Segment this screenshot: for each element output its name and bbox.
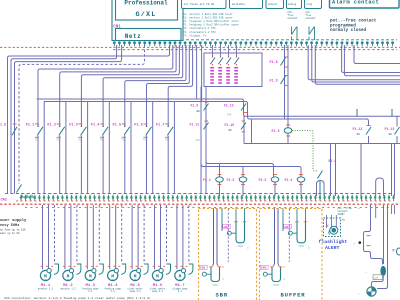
lamp F2.2 (227, 167, 247, 197)
fuse F1.13a (224, 102, 247, 117)
buzzer H1 (381, 266, 386, 275)
svg-text:Professional: Professional (124, 0, 168, 6)
fuse F1.3 (69, 99, 88, 194)
BUFFER internal wires (275, 209, 306, 264)
pot contact note (306, 11, 317, 20)
fuse F1.11 (190, 121, 209, 142)
edge component M-right (393, 248, 400, 255)
motor M1.5 (130, 205, 148, 283)
svg-text:BUFFER: BUFFER (281, 292, 306, 299)
wire N-L3 (15, 45, 122, 194)
svg-text:A2: aerator 2 Bel2 DR2:I: A2: aerator 2 Bel2 DR2:ISB upper (183, 16, 233, 20)
wire Z1 (342, 45, 400, 73)
motor M1.2 (63, 205, 81, 283)
wire Z2 (344, 45, 400, 76)
svg-text:6A: 6A (389, 133, 393, 136)
svg-text:ency 50Hz: ency 50Hz (0, 224, 19, 228)
svg-text:~: ~ (156, 279, 158, 283)
svg-text:SBmin: SBmin (273, 283, 279, 286)
svg-text:~: ~ (67, 279, 69, 283)
wire V-335 (335, 144, 337, 197)
svg-text:off: off (374, 277, 379, 280)
svg-text:P7: sludgep. FL: P7: sludgep. FL (183, 33, 207, 37)
svg-text:A1: aerator 1 Bel1 DR1:I: A1: aerator 1 Bel1 DR1:ISB inner (183, 12, 233, 16)
svg-text:F1.1: F1.1 (26, 123, 35, 127)
pot contact note (288, 11, 299, 20)
lamp F2.4 (285, 175, 305, 196)
float switch BUFFER-lower (260, 263, 286, 286)
svg-text:F2.3: F2.3 (259, 178, 267, 182)
svg-text:T6A: T6A (35, 138, 40, 141)
fuse F1.2 (47, 99, 66, 194)
legend box: analog (287, 0, 302, 9)
svg-text:ower supply: ower supply (0, 218, 27, 223)
terminal box K1 (204, 53, 262, 87)
wire N-L2 (11, 45, 117, 194)
float switch BUFFER-upper (284, 222, 310, 250)
svg-text:P1: feedpump 1 Mux1 DR3:b: P1: feedpump 1 Mux1 DR3:buffer inner (183, 19, 239, 23)
svg-text:6A: 6A (197, 110, 201, 113)
svg-text:SBR: SBR (216, 292, 228, 299)
label box H1 (373, 275, 383, 280)
svg-text:contact: contact (306, 17, 317, 20)
X2 left hooks (22, 195, 35, 198)
svg-text:~: ~ (89, 279, 91, 283)
wire H1-P1 (372, 276, 384, 287)
bus B2 (44, 102, 369, 127)
svg-text:CN2: CN2 (1, 199, 7, 203)
arrow to contact (353, 241, 362, 246)
wire FC-b (287, 45, 289, 144)
legend box: fuses note (182, 0, 227, 9)
svg-text:F1.8: F1.8 (270, 61, 278, 65)
svg-text:F1.5: F1.5 (272, 130, 280, 134)
svg-text:SBmax: SBmax (298, 245, 305, 248)
net L1 rail (red dashed) (0, 46, 400, 48)
connector X2 pin row (20, 195, 395, 201)
svg-text:1.1: 1.1 (178, 290, 183, 293)
svg-text:F2.2: F2.2 (227, 178, 235, 182)
flashlight label (319, 239, 348, 251)
wire N-L1 (8, 45, 170, 194)
svg-text:F1.7: F1.7 (156, 123, 165, 127)
svg-text:F1.2: F1.2 (47, 123, 56, 127)
svg-text:m3: m3 (283, 278, 285, 280)
wire Z6 (315, 45, 400, 84)
motor M1.7 (175, 205, 193, 283)
controller U1 label box (116, 0, 178, 20)
wire Z4 (308, 45, 400, 80)
svg-text:contact: contact (288, 17, 299, 20)
svg-text:1.2: 1.2 (111, 290, 116, 293)
svg-text:~: ~ (134, 279, 136, 283)
motor M1.6 name (150, 287, 166, 293)
wire N-D1 (196, 45, 198, 99)
wire Z5 (312, 45, 400, 82)
svg-text:m3: m3 (222, 278, 224, 280)
svg-text:~: ~ (44, 279, 46, 283)
wire V-330 (330, 144, 332, 197)
motor M1.4 name (104, 287, 121, 293)
note: pot free contact (330, 19, 377, 34)
lamp F2.1 (203, 164, 223, 197)
lamp F2.3 (259, 175, 279, 196)
lamp F1.5 (272, 125, 292, 136)
teal riser a (356, 109, 358, 116)
wire W3 (377, 205, 388, 289)
legend box: prog (305, 0, 322, 9)
svg-text:#: # (327, 225, 329, 229)
svg-text:aerator 1.2: aerator 1.2 (60, 287, 76, 290)
motor M1.3 (85, 205, 103, 283)
switch E1.5 (318, 159, 337, 196)
rail R2 (201, 162, 301, 177)
motor M1.1 (40, 205, 58, 283)
svg-text:aerator 1.1: aerator 1.1 (38, 287, 54, 290)
SBR internal wires (214, 209, 245, 264)
fuse F1.13r (385, 116, 400, 143)
motor M1.5 name (128, 287, 144, 293)
alarm contact box (330, 0, 400, 8)
legend box: multibus (230, 0, 263, 9)
switch S-pot (292, 27, 298, 41)
fuse F1.4 (91, 99, 110, 194)
wire N-L4 (dashed) (19, 45, 145, 184)
wire N-F6 (147, 45, 190, 100)
motor M1.7 name (172, 287, 188, 293)
wire stub R4 (391, 205, 393, 214)
svg-text:T6A: T6A (56, 138, 61, 141)
svg-text:F1.6: F1.6 (134, 123, 143, 127)
float switch SBR-upper (223, 222, 249, 250)
wire stub R5 (394, 205, 396, 214)
svg-text:F1.13: F1.13 (224, 104, 234, 108)
wire bus-drop (243, 116, 245, 143)
wire-name labels row (teal) (25, 207, 390, 209)
wire N-F4 (103, 45, 183, 100)
svg-text:T6A: T6A (121, 138, 126, 141)
wire Z3 (354, 45, 400, 64)
terminal column K1.4 (234, 45, 239, 84)
svg-text:ALERT: ALERT (338, 213, 346, 216)
svg-text:F1.5: F1.5 (113, 123, 122, 127)
svg-text:*: * (358, 207, 360, 211)
svg-text:P2: feedpump 2 Mux2 DR4:b: P2: feedpump 2 Mux2 DR4:buffer upper (183, 23, 239, 27)
wire K1-out-a (200, 87, 202, 194)
bus B1 (37, 99, 400, 116)
switch S-A4 on dashed wire (17, 185, 22, 193)
fuse F1.8r (270, 57, 289, 67)
svg-text:T6A: T6A (100, 138, 105, 141)
svg-text:6A: 6A (229, 129, 233, 132)
fuse F1.5 (113, 99, 132, 194)
wire stub R3 (375, 205, 377, 218)
wire N-F5 (125, 45, 186, 100)
svg-text:multibus: multibus (232, 2, 245, 6)
svg-text:flashlight: flashlight (319, 239, 348, 245)
svg-text:F2.1: F2.1 (203, 178, 211, 182)
svg-text:T6A: T6A (78, 138, 83, 141)
teal riser b (391, 109, 393, 116)
wire K1-out-b (205, 87, 207, 194)
note mains supply (0, 218, 27, 235)
svg-text:F1.9: F1.9 (270, 80, 278, 84)
wire box-left (251, 119, 253, 144)
svg-text:P4: clearwaterp.2 TM2: P4: clearwaterp.2 TM2 (183, 30, 216, 34)
connector CN-top outline (dashed) (186, 39, 397, 41)
terminal column K1.1 (210, 45, 215, 84)
svg-text:T6A: T6A (227, 113, 232, 116)
pump P1 (367, 287, 376, 296)
svg-text:G/XL: G/XL (135, 11, 156, 19)
fuse F1.9r (270, 76, 289, 86)
fuse F1.7 (156, 99, 175, 194)
fuse F1.8 (left edge, cut) (0, 123, 17, 135)
svg-text:F1.13: F1.13 (385, 127, 395, 131)
svg-text:T6A: T6A (143, 138, 148, 141)
fuse F1.9 (191, 102, 209, 113)
svg-text:2A: 2A (357, 133, 361, 136)
fuse F1.12 (353, 126, 372, 144)
svg-text:1.8: 1.8 (0, 123, 6, 127)
note pot contact alert (338, 207, 361, 216)
svg-text:output: output (268, 3, 278, 6)
svg-text:~: ~ (112, 279, 114, 283)
wire N-D2 (201, 45, 203, 102)
svg-text:imer up to 6A: imer up to 6A (0, 232, 20, 235)
wire N-F2 (60, 45, 176, 100)
rail R1 (206, 161, 274, 177)
svg-text:SBmin: SBmin (212, 283, 218, 286)
svg-text:m3: m3 (308, 247, 310, 249)
svg-text:pump 1.2: pump 1.2 (152, 290, 164, 293)
wire V-394 (394, 144, 396, 197)
tank box BUFFER (260, 209, 323, 300)
flashlight box (324, 218, 341, 237)
svg-text:XXX connection: aerator 1.1+1.: XXX connection: aerator 1.1+1.2 feeding … (4, 296, 151, 300)
svg-text:F1.9: F1.9 (191, 104, 199, 108)
wire N-F3 (81, 45, 179, 100)
svg-text:P3: clearwaterp.1 TM1: P3: clearwaterp.1 TM1 (183, 26, 216, 30)
wire V-361 (360, 144, 362, 197)
svg-text:1.1: 1.1 (88, 290, 93, 293)
legend text table (183, 12, 239, 37)
svg-text:~: ~ (179, 279, 181, 283)
wire loop L-375 (376, 178, 384, 196)
terminal column K1.2 (218, 45, 223, 84)
svg-text:F2.4: F2.4 (285, 178, 293, 182)
connector X1 pin row (113, 41, 394, 46)
svg-text:m3: m3 (247, 247, 249, 249)
svg-text:Netz: Netz (125, 33, 141, 40)
svg-text:analog: analog (288, 3, 297, 6)
switch S-pot (309, 27, 315, 41)
wire green sense (dotted) (292, 131, 317, 172)
legend box: output (266, 0, 284, 9)
contact ticks W1 (367, 236, 371, 246)
motor M1.4 (108, 205, 126, 283)
net L2 rail (red dashed) (0, 203, 400, 205)
wire N-F7 (168, 45, 192, 100)
svg-text:F1.11: F1.11 (190, 123, 200, 127)
svg-text:T6A: T6A (165, 138, 170, 141)
svg-text:prog: prog (307, 3, 313, 6)
fuse F1.10 (225, 121, 247, 132)
horn H2 icon (329, 226, 338, 234)
terminal column K1.3 (226, 45, 231, 84)
svg-text:ALERT: ALERT (325, 245, 340, 251)
svg-text:pump 1.1: pump 1.1 (130, 290, 142, 293)
tank box SBR (199, 209, 257, 300)
flashlight feed wires (327, 215, 345, 229)
svg-text:all fuses are T6.3A: all fuses are T6.3A (184, 2, 215, 6)
wire loop L-316 (317, 181, 325, 197)
svg-text:T6A: T6A (196, 139, 201, 142)
svg-text:SBmax: SBmax (237, 245, 244, 248)
svg-text:F1.12: F1.12 (353, 127, 363, 131)
svg-text:F1.4: F1.4 (91, 123, 100, 127)
wire V-391 (391, 144, 393, 197)
connector X2 outline (dashed) (5, 193, 392, 195)
wire N-F1 (38, 45, 173, 100)
fuse F1.6 (134, 99, 153, 194)
pin-number labels row (red) (113, 49, 397, 51)
wire W2 (383, 205, 385, 264)
controller U1 outer box (112, 0, 183, 41)
svg-text:F1.10: F1.10 (225, 123, 235, 127)
svg-text:Alarm contact: Alarm contact (332, 0, 379, 6)
bus B3 (244, 143, 400, 145)
svg-text:normaly closed: normaly closed (330, 28, 367, 33)
motor M1.6 (152, 205, 170, 283)
wire FC-a (284, 45, 286, 119)
controller U1 Netz box (116, 29, 182, 41)
fuse F1.1 (26, 99, 45, 194)
float switch SBR-lower (199, 263, 225, 286)
svg-text:M: M (393, 249, 395, 253)
wire W1 alert (364, 205, 383, 265)
motor M1.3 name (82, 287, 99, 293)
svg-text:F1.3: F1.3 (69, 123, 78, 127)
pin-number labels row 2 (red) (16, 200, 394, 202)
